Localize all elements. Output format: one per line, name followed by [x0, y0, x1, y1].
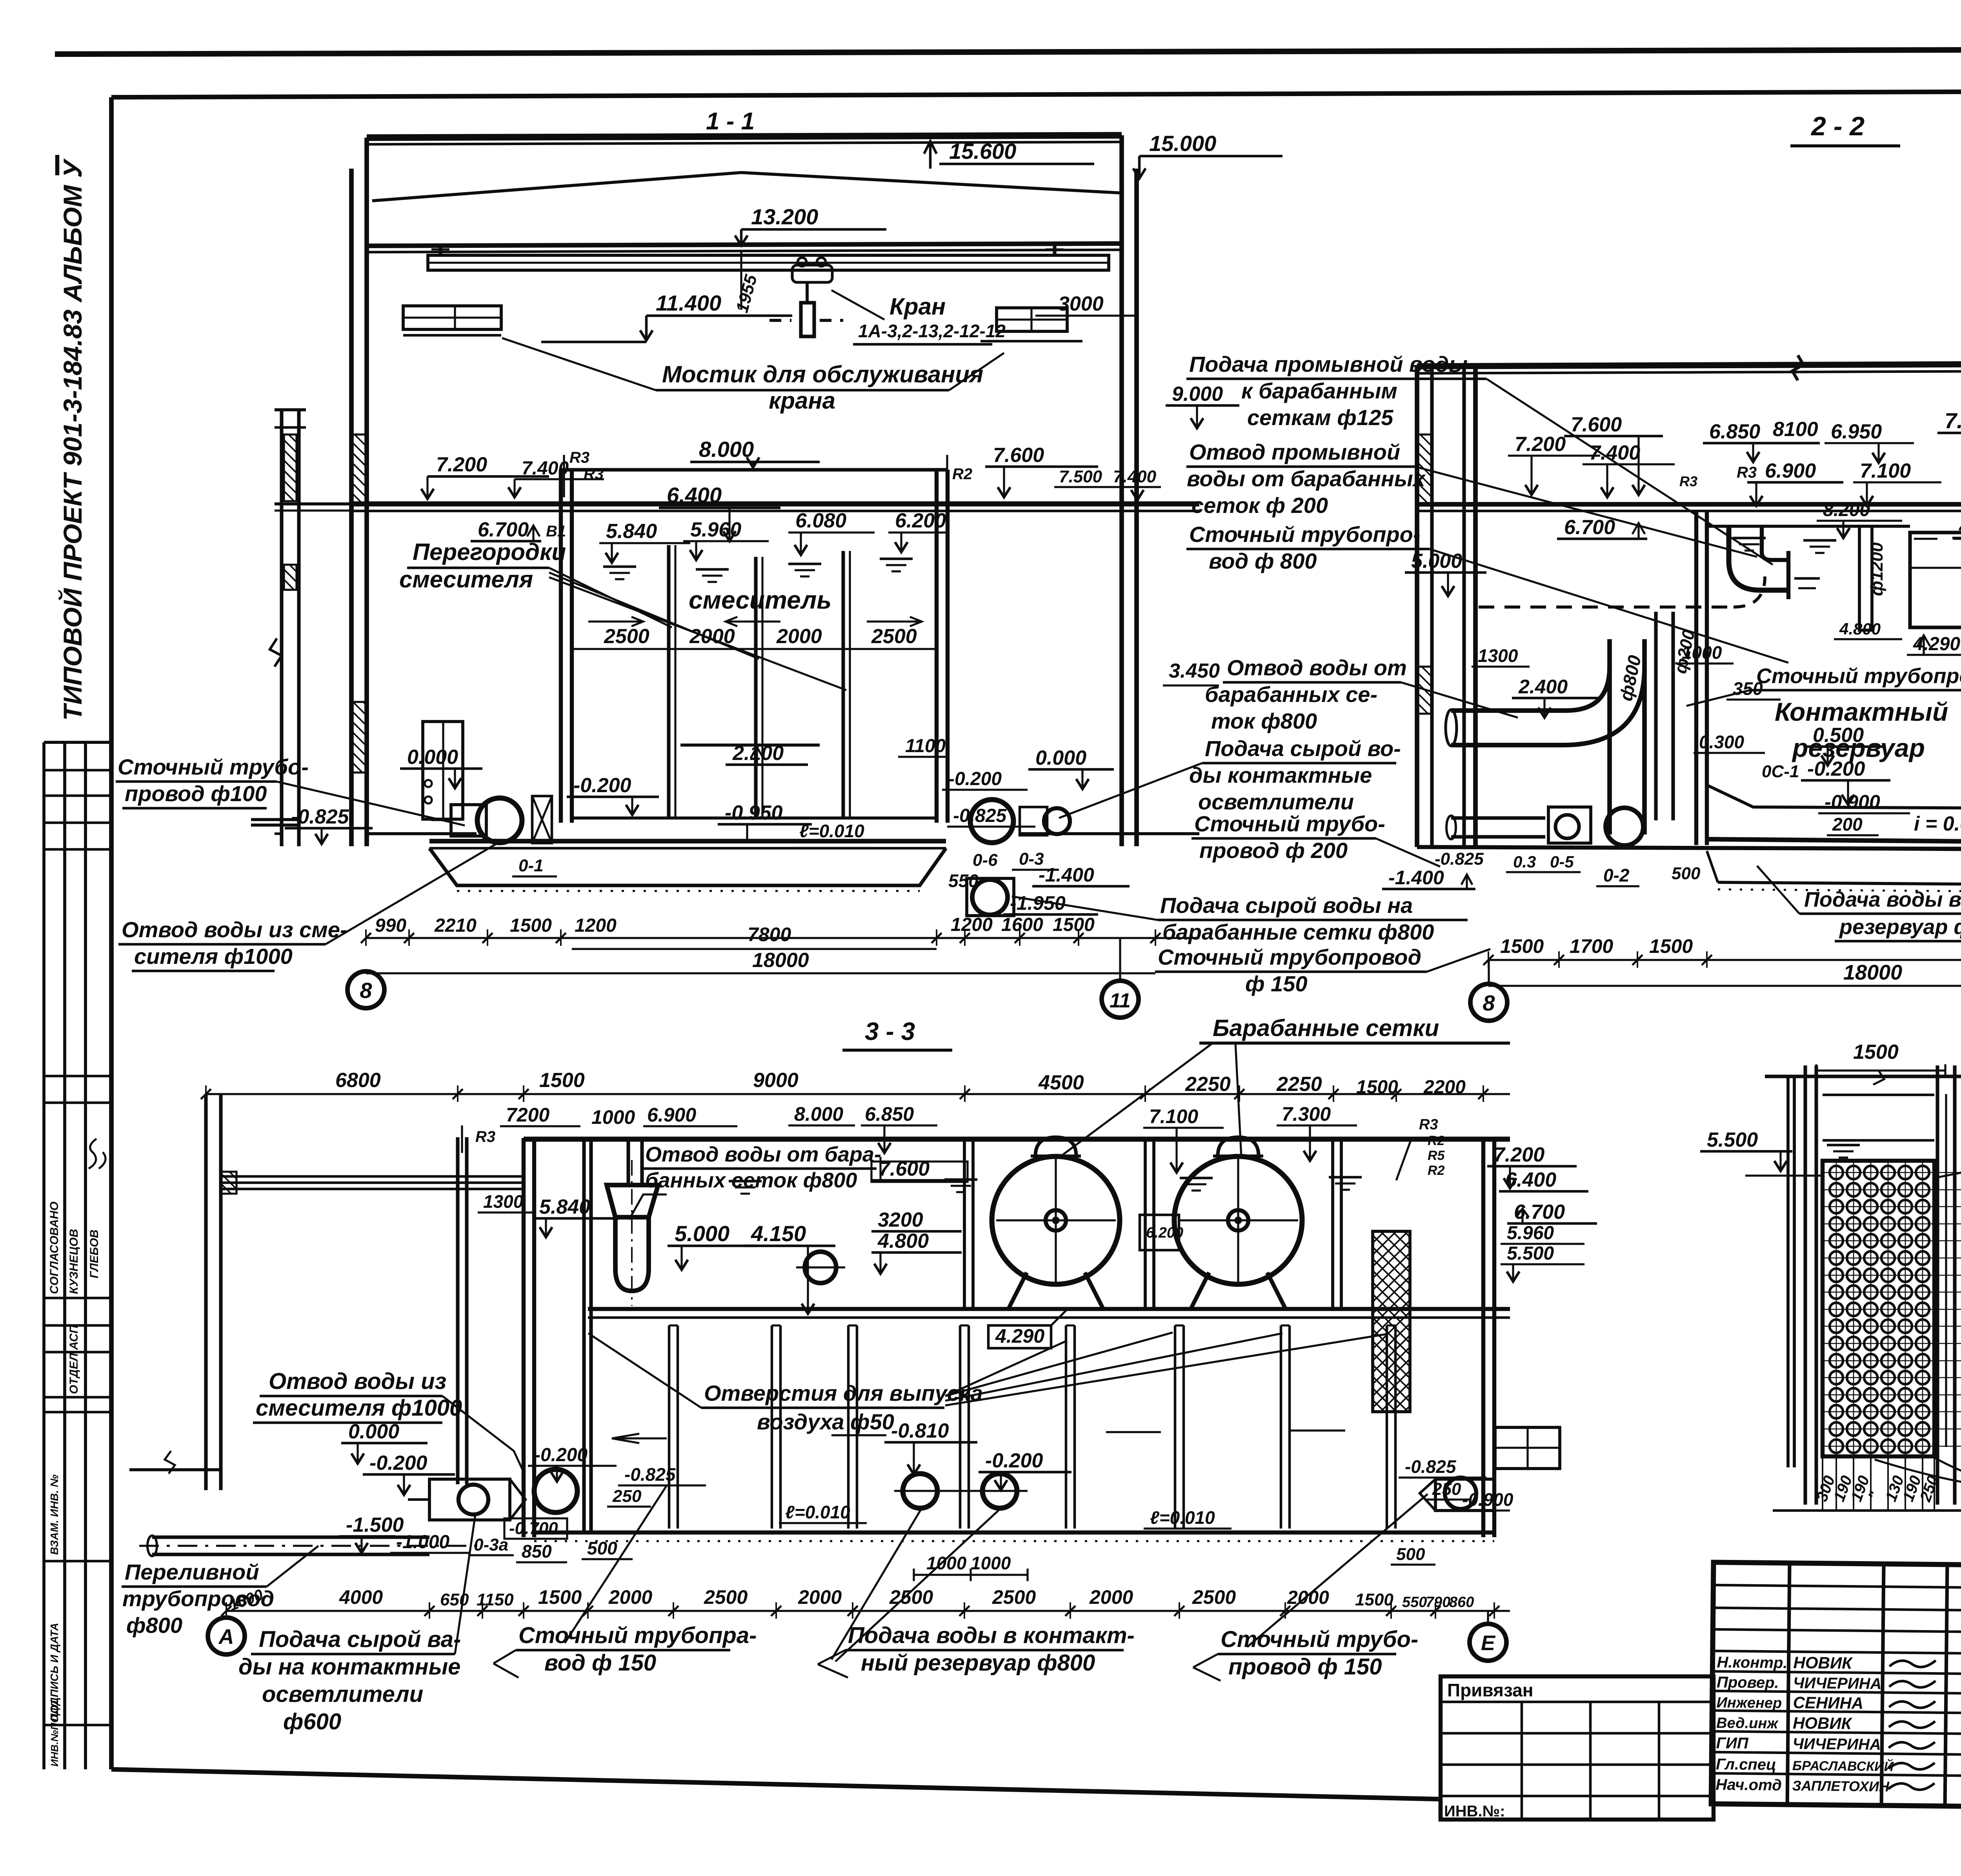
svg-text:ГИП: ГИП — [1716, 1734, 1749, 1752]
svg-text:ℓ=0.010: ℓ=0.010 — [1150, 1507, 1215, 1528]
svg-text:-0.200: -0.200 — [573, 774, 631, 797]
svg-text:смесителя: смесителя — [399, 566, 533, 593]
svg-text:6.400: 6.400 — [667, 483, 722, 507]
svg-text:осветлители: осветлители — [1198, 789, 1354, 814]
svg-text:ф 150: ф 150 — [1245, 971, 1308, 996]
svg-text:Мостик для обслуживания: Мостик для обслуживания — [662, 361, 983, 387]
svg-text:0.000: 0.000 — [1035, 747, 1086, 769]
svg-text:6.900: 6.900 — [647, 1104, 696, 1126]
svg-text:2000: 2000 — [1287, 1587, 1329, 1608]
1-1 mixer partition 2 — [754, 557, 757, 819]
svg-text:6.200: 6.200 — [895, 509, 946, 532]
svg-text:4.290: 4.290 — [1913, 634, 1960, 654]
2-2 left wall columns — [1415, 366, 1419, 847]
svg-text:5.500: 5.500 — [1707, 1129, 1758, 1151]
detail inner top line — [1823, 1094, 1934, 1096]
svg-text:Сточный трубо-: Сточный трубо- — [1194, 811, 1385, 836]
svg-text:1000: 1000 — [591, 1106, 635, 1128]
1-1 roof slab bottom line — [367, 142, 1122, 144]
svg-text:ф1200: ф1200 — [1867, 542, 1886, 596]
svg-text:2 - 2: 2 - 2 — [1810, 111, 1865, 141]
svg-text:Нач.отд: Нач.отд — [1715, 1776, 1782, 1794]
1-1 bridge hanger left — [438, 244, 442, 255]
1-1 left column — [349, 169, 354, 846]
3-3 boxed dim 6.200 — [1140, 1215, 1179, 1250]
svg-text:15.600: 15.600 — [949, 139, 1016, 164]
1-1 crane travel dash line — [769, 319, 791, 322]
svg-text:0.000: 0.000 — [407, 746, 458, 769]
svg-text:2500: 2500 — [604, 625, 649, 648]
svg-text:6.700: 6.700 — [478, 518, 529, 541]
1-1 pump right small — [1044, 808, 1070, 834]
svg-text:8.000: 8.000 — [699, 437, 754, 462]
1-1 right column — [1119, 135, 1124, 846]
3-3 axis circle E — [1470, 1624, 1506, 1661]
svg-text:3 - 3: 3 - 3 — [865, 1017, 915, 1045]
3-3 axis circle A — [208, 1618, 245, 1654]
svg-text:провод ф 150: провод ф 150 — [1228, 1654, 1382, 1680]
detail wall far left — [1786, 1076, 1790, 1467]
svg-text:Гл.спец: Гл.спец — [1716, 1756, 1776, 1773]
detail hole grid — [1823, 1172, 1961, 1173]
svg-text:7.600: 7.600 — [993, 444, 1044, 467]
svg-text:18000: 18000 — [752, 949, 809, 972]
svg-text:11.400: 11.400 — [656, 291, 721, 315]
svg-text:Сточный трубопровод: Сточный трубопровод — [1158, 945, 1421, 969]
svg-text:Подача сырой во-: Подача сырой во- — [1205, 736, 1401, 761]
2-2 left wall hatch — [1418, 434, 1431, 504]
3-3 tank top line — [524, 1137, 1510, 1142]
svg-text:1000: 1000 — [971, 1553, 1011, 1573]
svg-text:8.000: 8.000 — [794, 1103, 843, 1125]
svg-text:-0.200: -0.200 — [948, 769, 1002, 789]
2-2 water dash below elbow — [1794, 577, 1820, 580]
svg-text:5.960: 5.960 — [690, 518, 741, 541]
svg-text:-0.825: -0.825 — [624, 1464, 676, 1485]
svg-text:6.950: 6.950 — [1831, 420, 1882, 443]
3-3 partition right of drums — [1331, 1139, 1334, 1308]
svg-text:0С-1: 0С-1 — [1762, 762, 1799, 781]
svg-text:8.200: 8.200 — [1823, 500, 1870, 520]
svg-text:7.200: 7.200 — [1515, 433, 1566, 456]
svg-text:Привязан: Привязан — [1447, 1680, 1534, 1700]
svg-text:1000: 1000 — [926, 1553, 967, 1573]
drawing frame left — [109, 97, 114, 1769]
svg-text:7.100: 7.100 — [1860, 460, 1911, 482]
svg-text:-0.900: -0.900 — [1825, 791, 1880, 813]
svg-text:1500: 1500 — [1356, 1077, 1398, 1098]
sheet outer top border — [55, 49, 1961, 54]
svg-text:сеткам ф125: сеткам ф125 — [1247, 405, 1393, 430]
1-1 roof underside sloped lines — [372, 173, 1121, 201]
1-1 axis circle 11 — [1102, 981, 1139, 1018]
svg-text:Подача сырой ва-: Подача сырой ва- — [259, 1627, 461, 1652]
svg-text:к барабанным: к барабанным — [1241, 378, 1397, 403]
svg-text:-0.810: -0.810 — [891, 1420, 949, 1442]
3-3 overflow pipe to left — [152, 1535, 429, 1539]
svg-text:R3: R3 — [569, 449, 589, 466]
svg-text:8: 8 — [1483, 991, 1495, 1015]
svg-text:0-1: 0-1 — [518, 856, 544, 875]
detail bottom dim verticals — [1822, 1456, 1823, 1510]
1-1 mixer tank right wall — [935, 470, 939, 823]
1-1 tank foundation slab — [429, 839, 946, 843]
svg-text:сеток ф 200: сеток ф 200 — [1192, 493, 1328, 518]
svg-text:Контактный: Контактный — [1775, 697, 1948, 726]
svg-text:6.900: 6.900 — [1765, 460, 1816, 482]
svg-text:-0.200: -0.200 — [534, 1445, 588, 1465]
title block outer rect — [1711, 1562, 1961, 1812]
1-1 mixer tank left wall — [559, 470, 563, 823]
svg-text:-0.700: -0.700 — [509, 1519, 558, 1538]
drawing frame bottom (sloped) — [111, 1769, 1441, 1799]
svg-text:2500: 2500 — [704, 1586, 748, 1608]
svg-text:ТИПОВОЙ ПРОЕКТ 901-3-184.83 АЛ: ТИПОВОЙ ПРОЕКТ 901-3-184.83 АЛЬБОМ У — [58, 158, 87, 721]
left stamp column grid — [42, 742, 45, 1769]
svg-text:1200: 1200 — [951, 914, 993, 935]
detail left wall — [1803, 1065, 1807, 1505]
svg-text:Отвод воды от бара-: Отвод воды от бара- — [645, 1143, 881, 1166]
svg-text:15.000: 15.000 — [1149, 131, 1216, 156]
svg-text:-0.950: -0.950 — [725, 802, 783, 824]
svg-text:СОГЛАСОВАНО: СОГЛАСОВАНО — [48, 1202, 61, 1294]
1-1 water levels in mixer — [603, 565, 636, 568]
2-2 tank inner duct ф1200 — [1859, 526, 1872, 630]
svg-text:БРАСЛАВСКИЙ: БРАСЛАВСКИЙ — [1792, 1758, 1894, 1774]
2-2 riser pipe ф800 — [1607, 639, 1612, 834]
svg-text:7.500: 7.500 — [1059, 467, 1102, 486]
1-1 roof slab top line — [367, 135, 1122, 138]
2-2 contact tank left wall — [1694, 512, 1698, 845]
svg-text:7.300: 7.300 — [1945, 408, 1961, 433]
1-1 bridge hanger right — [1053, 244, 1056, 255]
3-3 tank left wall — [522, 1138, 526, 1537]
svg-text:ЧИЧЕРИНА: ЧИЧЕРИНА — [1792, 1735, 1881, 1753]
svg-text:1700: 1700 — [1570, 935, 1613, 957]
svg-text:воздуха ф50: воздуха ф50 — [757, 1409, 894, 1434]
svg-text:4.150: 4.150 — [751, 1221, 806, 1246]
svg-text:смесителя ф1000: смесителя ф1000 — [256, 1395, 462, 1421]
svg-text:0.300: 0.300 — [1699, 732, 1745, 752]
svg-text:ток ф800: ток ф800 — [1211, 709, 1317, 733]
1-1 left exterior wall — [280, 410, 283, 846]
1-1 lower dim row — [366, 937, 1199, 939]
2-2 inner bottom chamfers — [1707, 785, 1961, 809]
3-3 partitions of contact clarifiers — [668, 1325, 671, 1529]
svg-text:Подача воды в контактный: Подача воды в контактный — [1804, 888, 1961, 911]
svg-text:2.400: 2.400 — [1518, 676, 1568, 698]
3-3 partition left of drums — [963, 1140, 966, 1308]
3-3 top-left pipe bundle — [221, 1175, 524, 1178]
2-2 axis circle 8 — [1470, 984, 1507, 1021]
1-1 crane pendant and hook — [806, 282, 809, 303]
svg-text:Отверстия для выпуска: Отверстия для выпуска — [704, 1381, 983, 1405]
svg-text:6.080: 6.080 — [795, 509, 846, 532]
detail water level 5.840 — [1823, 1139, 1934, 1142]
1-1 mixer tank rim — [561, 468, 948, 471]
svg-text:3.450: 3.450 — [1169, 660, 1220, 682]
svg-text:5.000: 5.000 — [675, 1221, 729, 1246]
svg-text:вод ф 150: вод ф 150 — [544, 1650, 656, 1676]
3-3 top dim line — [206, 1093, 1510, 1095]
svg-text:6800: 6800 — [335, 1069, 381, 1092]
svg-text:А: А — [218, 1625, 234, 1649]
1-1 dim row ticks — [361, 933, 371, 943]
2-2 tank inner box — [1910, 533, 1961, 627]
svg-text:Барабанные сетки: Барабанные сетки — [1213, 1015, 1439, 1041]
svg-text:5.000: 5.000 — [1411, 550, 1462, 573]
svg-text:860: 860 — [1449, 1594, 1474, 1611]
3-3 overflow funnel inlet pipe — [626, 1140, 630, 1184]
title block verticals — [1787, 1563, 1790, 1805]
svg-text:ВЗАМ. ИНВ. №: ВЗАМ. ИНВ. № — [48, 1474, 60, 1555]
svg-text:6.400: 6.400 — [1505, 1169, 1556, 1191]
svg-text:990: 990 — [375, 915, 406, 936]
svg-text:2500: 2500 — [871, 625, 917, 648]
2-2 floor slab 7.2 level — [1417, 502, 1961, 507]
2-2 roof break mark — [1792, 355, 1803, 380]
1-1 pump left — [477, 798, 522, 843]
1-1 pump pit right — [967, 878, 1014, 916]
svg-text:R3: R3 — [1419, 1116, 1438, 1133]
svg-text:-0.825: -0.825 — [953, 805, 1007, 826]
svg-text:5.500: 5.500 — [1507, 1243, 1554, 1264]
3-3 bottom dim line — [226, 1610, 1510, 1612]
svg-text:ОТДЕЛ АСП: ОТДЕЛ АСП — [67, 1325, 80, 1394]
3-3 drum screen left — [992, 1156, 1120, 1284]
2-2 contact tank bottom — [1707, 839, 1961, 843]
svg-text:500: 500 — [587, 1538, 617, 1558]
3-3 diamond-hatch filter block — [1373, 1231, 1410, 1412]
svg-text:0-5: 0-5 — [1550, 853, 1574, 871]
svg-text:4500: 4500 — [1038, 1071, 1084, 1094]
svg-text:13.200: 13.200 — [751, 204, 818, 229]
3-3 leaders to partition tops — [945, 1332, 1173, 1396]
svg-text:вод ф 800: вод ф 800 — [1209, 549, 1317, 573]
svg-text:провод ф 200: провод ф 200 — [1199, 838, 1348, 863]
3-3 right exterior ledge — [1495, 1427, 1560, 1469]
1-1 right service platform — [997, 308, 1067, 331]
svg-text:7.300: 7.300 — [1282, 1103, 1331, 1125]
svg-text:1500: 1500 — [510, 915, 552, 936]
2-2 riser pipe ф200 — [1654, 612, 1657, 820]
title block upper-left rows — [1713, 1585, 1961, 1588]
drawing frame top — [111, 90, 1961, 97]
2-2 left exit pipe lower — [1451, 816, 1545, 820]
3-3 water arrows lower — [612, 1434, 667, 1443]
frame bottom connector at Привязан box — [1439, 1799, 1443, 1820]
svg-text:Инженер: Инженер — [1716, 1694, 1782, 1712]
1-1 crane beam lines — [367, 244, 1122, 246]
svg-text:200: 200 — [1832, 814, 1863, 834]
svg-text:НОВИК: НОВИК — [1793, 1714, 1853, 1732]
svg-text:-0.900: -0.900 — [1462, 1489, 1513, 1510]
svg-text:-0.825: -0.825 — [1435, 849, 1484, 869]
svg-text:Н.контр.: Н.контр. — [1717, 1654, 1787, 1672]
svg-text:осветлители: осветлители — [262, 1681, 423, 1707]
title block signature squiggles — [1889, 1660, 1936, 1667]
2-2 upper elbow at tank wall — [1729, 527, 1788, 590]
svg-text:6.850: 6.850 — [865, 1103, 914, 1125]
3-3 mid support slab — [588, 1307, 1510, 1311]
3-3 left grade line — [129, 1468, 221, 1471]
svg-text:1500: 1500 — [1053, 914, 1095, 935]
svg-text:5.960: 5.960 — [1507, 1223, 1554, 1243]
svg-text:R2: R2 — [1428, 1163, 1445, 1178]
title block signature rows — [1712, 1671, 1961, 1674]
svg-text:2500: 2500 — [1192, 1586, 1236, 1608]
2-2 ground line — [1417, 847, 1961, 850]
svg-text:0.3: 0.3 — [1513, 853, 1536, 871]
svg-text:4.290: 4.290 — [995, 1325, 1044, 1347]
svg-text:-1.400: -1.400 — [1039, 864, 1094, 886]
svg-text:4000: 4000 — [339, 1586, 383, 1608]
svg-text:0-6: 0-6 — [973, 851, 998, 870]
1-1 break mark on left wall — [270, 638, 282, 667]
svg-text:сителя ф1000: сителя ф1000 — [134, 944, 293, 969]
3-3 bottom pipe circles — [534, 1469, 577, 1512]
svg-text:резервуар ф800: резервуар ф800 — [1839, 915, 1961, 939]
svg-text:В1: В1 — [546, 523, 566, 540]
svg-text:ф800: ф800 — [126, 1613, 182, 1638]
svg-text:Отвод промывной: Отвод промывной — [1189, 440, 1400, 464]
svg-text:1150: 1150 — [477, 1590, 514, 1609]
1-1 mixer tank inner floor — [572, 816, 937, 820]
3-3 drum screen right — [1174, 1156, 1302, 1284]
2-2 water level dashes — [1733, 537, 1766, 540]
svg-text:R3: R3 — [1737, 464, 1757, 481]
svg-text:2000: 2000 — [776, 625, 822, 648]
svg-text:8: 8 — [360, 978, 372, 1003]
svg-text:Сточный трубопро-: Сточный трубопро- — [1189, 522, 1421, 547]
svg-text:ℓ=0.010: ℓ=0.010 — [785, 1502, 850, 1522]
detail bottom line — [1773, 1509, 1961, 1512]
1-1 left column wall hatch lower — [352, 702, 366, 773]
1-1 ground floor line right of tank — [1020, 832, 1199, 835]
svg-text:ный резервуар ф800: ный резервуар ф800 — [861, 1650, 1095, 1676]
svg-text:ЧИЧЕРИНА: ЧИЧЕРИНА — [1793, 1674, 1882, 1692]
1-1 pump right big — [970, 800, 1013, 843]
svg-text:ды на контактные: ды на контактные — [238, 1654, 460, 1680]
svg-text:Сточный трубопра-: Сточный трубопра- — [518, 1623, 757, 1648]
1-1 bottom sewer stub — [251, 818, 298, 821]
svg-text:Переливной: Переливной — [125, 1560, 259, 1584]
1-1 valve with cross brace — [532, 796, 552, 843]
overline on У of АЛЬБОМ У — [55, 155, 59, 175]
svg-text:барабанные сетки ф800: барабанные сетки ф800 — [1162, 920, 1434, 944]
3-3 bottom floor — [534, 1531, 1494, 1534]
svg-text:ф600: ф600 — [283, 1709, 341, 1734]
svg-text:-0.200: -0.200 — [985, 1449, 1043, 1472]
svg-text:7.600: 7.600 — [1571, 413, 1622, 436]
svg-text:ИНВ.№:: ИНВ.№: — [1444, 1803, 1505, 1820]
svg-text:Подача сырой воды на: Подача сырой воды на — [1160, 893, 1413, 918]
2-2 dashed pipe to left — [1479, 605, 1734, 609]
svg-text:250: 250 — [612, 1487, 642, 1506]
svg-text:Сточный трубо-: Сточный трубо- — [1221, 1627, 1418, 1652]
svg-text:1100: 1100 — [905, 736, 946, 756]
1-1 axis circle 8 — [347, 971, 384, 1008]
3-3 second wall — [456, 1137, 459, 1484]
svg-text:ГЛЕБОВ: ГЛЕБОВ — [88, 1230, 101, 1278]
svg-text:трубопровод: трубопровод — [122, 1586, 274, 1611]
svg-text:ЗАПЛЕТОХИН: ЗАПЛЕТОХИН — [1792, 1778, 1890, 1794]
svg-text:R5: R5 — [1428, 1148, 1445, 1163]
2-2 bottom dim row — [1488, 959, 1961, 961]
2-2 roof slab line — [1417, 363, 1961, 366]
svg-text:500: 500 — [1396, 1545, 1425, 1564]
3-3 overflow funnel — [607, 1185, 658, 1217]
svg-text:2000: 2000 — [689, 625, 735, 648]
svg-text:1300: 1300 — [483, 1191, 524, 1212]
title block group — [1711, 1562, 1961, 1812]
svg-text:2250: 2250 — [1276, 1073, 1322, 1096]
svg-text:1300: 1300 — [1478, 645, 1518, 666]
svg-text:0-2: 0-2 — [1603, 865, 1630, 885]
3-3 water level dashes — [729, 1180, 762, 1183]
svg-text:7200: 7200 — [506, 1104, 549, 1126]
svg-text:7.200: 7.200 — [1493, 1143, 1544, 1166]
svg-text:1500: 1500 — [539, 1069, 585, 1092]
1-1 left pipe chase — [423, 722, 463, 819]
svg-text:9.000: 9.000 — [1172, 383, 1223, 405]
svg-text:2000: 2000 — [1089, 1586, 1133, 1608]
svg-text:Кран: Кран — [890, 293, 946, 320]
svg-text:1600: 1600 — [1001, 914, 1043, 935]
svg-text:1500: 1500 — [1500, 935, 1544, 957]
svg-text:-1.000: -1.000 — [396, 1532, 449, 1552]
svg-text:550: 550 — [1402, 1594, 1427, 1611]
svg-text:i = 0.010: i = 0.010 — [1914, 813, 1961, 835]
svg-text:Вед.инж: Вед.инж — [1716, 1715, 1779, 1732]
1-1 left column wall hatch upper — [352, 434, 366, 504]
svg-text:790: 790 — [1426, 1594, 1450, 1611]
svg-text:1500: 1500 — [1649, 935, 1693, 957]
svg-text:R3: R3 — [475, 1128, 495, 1145]
1-1 mixer partition 3 — [841, 551, 845, 819]
svg-text:3200: 3200 — [878, 1209, 923, 1231]
svg-text:2250: 2250 — [1185, 1073, 1231, 1096]
svg-text:11: 11 — [1110, 989, 1131, 1012]
svg-text:550: 550 — [948, 871, 979, 891]
svg-text:СЕНИНА: СЕНИНА — [1793, 1693, 1863, 1712]
svg-text:1000: 1000 — [1682, 642, 1722, 663]
svg-text:1200: 1200 — [575, 915, 617, 936]
svg-text:3000: 3000 — [1058, 293, 1104, 315]
svg-text:6.200: 6.200 — [1146, 1225, 1183, 1241]
svg-text:1А-3,2-13,2-12-12: 1А-3,2-13,2-12-12 — [858, 321, 1006, 341]
svg-text:4.350: 4.350 — [1959, 515, 1961, 538]
svg-text:барабанных се-: барабанных се- — [1205, 682, 1377, 707]
svg-text:Е: Е — [1481, 1631, 1496, 1655]
3-3 left inlet assembly — [429, 1479, 510, 1520]
svg-text:КУЗНЕЦОВ: КУЗНЕЦОВ — [67, 1229, 80, 1294]
2-2 tank top rim lines — [1707, 525, 1859, 528]
svg-text:-0.200: -0.200 — [369, 1452, 427, 1474]
1-1 crane service bridge — [428, 255, 1109, 270]
svg-text:Перегородки: Перегородки — [413, 539, 566, 565]
2-2 foundation below tank — [1718, 882, 1961, 885]
1-1 flow arrows in mixer — [588, 617, 643, 626]
svg-text:7800: 7800 — [748, 923, 791, 945]
svg-text:2000: 2000 — [608, 1586, 652, 1608]
3-3 inner channel wall — [582, 1139, 586, 1532]
svg-text:6.700: 6.700 — [1564, 516, 1615, 539]
1-1 crane trolley — [792, 265, 832, 282]
svg-text:ИНВ.№ПОДЛ: ИНВ.№ПОДЛ — [49, 1700, 60, 1767]
1-1 leaders from Перегородки to partitions — [549, 568, 672, 627]
svg-text:2500: 2500 — [992, 1586, 1036, 1608]
